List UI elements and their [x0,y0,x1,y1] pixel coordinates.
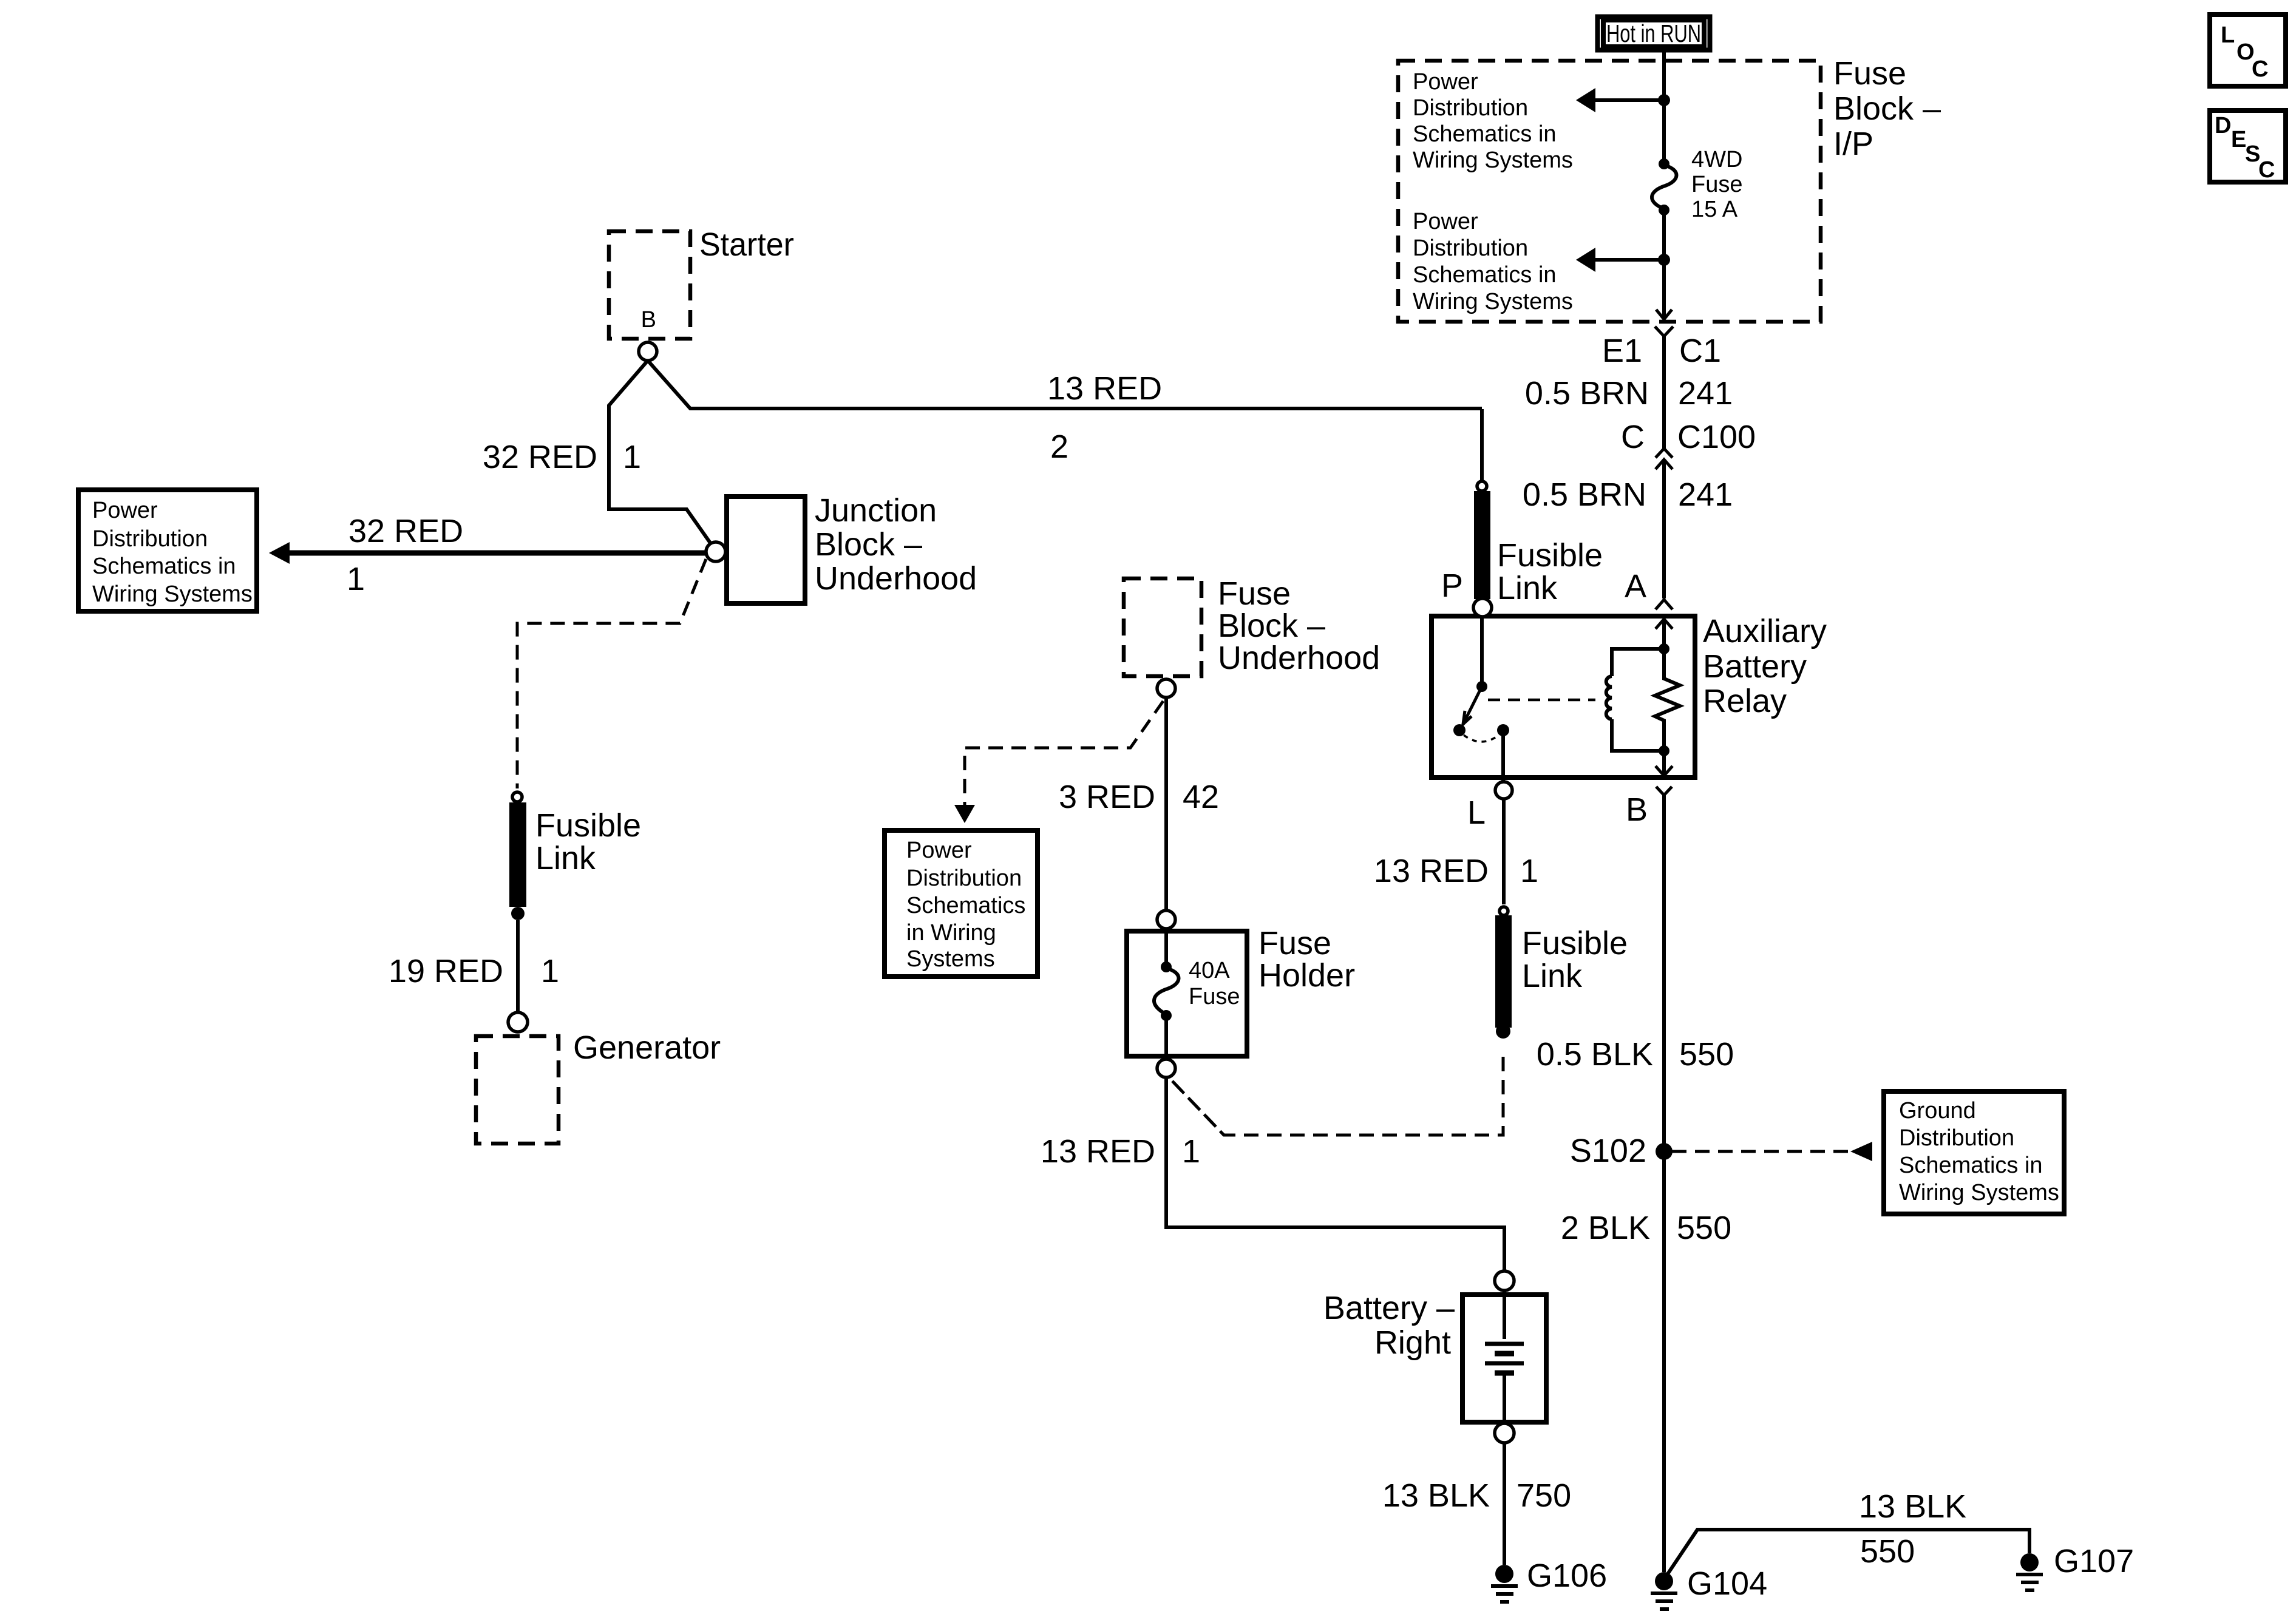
svg-text:G106: G106 [1527,1558,1607,1594]
svg-text:19 RED: 19 RED [389,953,503,989]
svg-text:L: L [1467,795,1486,831]
svg-text:241: 241 [1678,476,1733,513]
svg-text:32 RED: 32 RED [348,513,463,549]
svg-text:Distribution: Distribution [1413,95,1528,121]
svg-text:Distribution: Distribution [1413,236,1528,261]
svg-text:2 BLK: 2 BLK [1561,1210,1650,1246]
svg-text:13 BLK: 13 BLK [1859,1488,1966,1525]
svg-text:Block –: Block – [1218,608,1325,644]
svg-text:1: 1 [541,953,559,989]
svg-text:Schematics in: Schematics in [92,554,236,579]
svg-text:Power: Power [1413,69,1478,95]
svg-text:Wiring Systems: Wiring Systems [1413,289,1573,314]
svg-text:3 RED: 3 RED [1059,779,1155,815]
svg-text:G104: G104 [1687,1565,1767,1602]
svg-text:32 RED: 32 RED [483,439,597,475]
svg-text:Power: Power [906,838,972,863]
svg-text:in Wiring: in Wiring [906,920,996,946]
svg-text:Fuse: Fuse [1691,172,1742,197]
svg-text:750: 750 [1517,1477,1571,1514]
svg-text:Distribution: Distribution [1899,1125,2014,1151]
svg-text:D: D [2215,113,2231,138]
svg-text:40A: 40A [1189,958,1230,983]
svg-text:Fuse: Fuse [1189,984,1240,1009]
svg-text:E: E [2231,127,2246,152]
svg-text:1: 1 [347,561,365,597]
svg-text:C: C [2258,157,2275,183]
svg-text:15 A: 15 A [1691,197,1738,222]
svg-text:550: 550 [1677,1210,1731,1246]
svg-text:0.5 BLK: 0.5 BLK [1537,1036,1653,1073]
svg-text:Wiring Systems: Wiring Systems [1413,147,1573,173]
svg-text:Power: Power [1413,209,1478,234]
svg-text:Fuse: Fuse [1833,55,1906,92]
svg-text:Schematics: Schematics [906,893,1025,918]
svg-text:Battery –: Battery – [1323,1290,1455,1326]
svg-text:13 BLK: 13 BLK [1382,1477,1490,1514]
svg-text:1: 1 [1520,853,1538,889]
svg-text:Holder: Holder [1258,957,1355,994]
svg-text:Systems: Systems [906,946,995,972]
svg-text:B: B [1626,792,1648,828]
svg-text:Fuse: Fuse [1258,925,1331,961]
svg-text:Hot in RUN: Hot in RUN [1606,19,1701,47]
svg-text:42: 42 [1183,779,1219,815]
svg-text:Distribution: Distribution [92,526,208,552]
svg-text:Fuse: Fuse [1218,575,1291,612]
svg-text:I/P: I/P [1833,126,1873,162]
svg-text:Battery: Battery [1703,648,1807,685]
svg-text:E1: E1 [1602,333,1642,369]
svg-text:C: C [2252,56,2268,82]
svg-text:C: C [1621,419,1645,455]
svg-text:Underhood: Underhood [1218,640,1380,676]
svg-text:0.5 BRN: 0.5 BRN [1523,476,1646,513]
svg-text:Junction: Junction [815,492,937,529]
svg-text:1: 1 [1182,1133,1200,1170]
svg-text:13 RED: 13 RED [1374,853,1489,889]
svg-text:Wiring Systems: Wiring Systems [92,581,253,607]
svg-text:Fusible: Fusible [1497,537,1603,574]
svg-text:Block –: Block – [1833,90,1941,127]
svg-text:13 RED: 13 RED [1041,1133,1155,1170]
svg-text:L: L [2221,22,2235,48]
svg-text:Auxiliary: Auxiliary [1703,613,1827,649]
svg-text:C1: C1 [1679,333,1721,369]
svg-text:0.5 BRN: 0.5 BRN [1525,375,1649,412]
svg-text:S102: S102 [1570,1133,1646,1169]
svg-text:Right: Right [1374,1324,1451,1361]
svg-text:Ground: Ground [1899,1098,1976,1124]
svg-text:B: B [641,307,656,333]
svg-text:Power: Power [92,498,158,523]
svg-text:Link: Link [1497,570,1558,606]
svg-text:Schematics in: Schematics in [1413,121,1557,147]
svg-text:Relay: Relay [1703,683,1787,719]
svg-text:C100: C100 [1677,419,1756,455]
svg-text:P: P [1441,568,1463,604]
svg-text:Block –: Block – [815,526,922,563]
svg-text:550: 550 [1860,1533,1915,1570]
svg-text:Schematics in: Schematics in [1899,1153,2043,1178]
svg-text:Fusible: Fusible [535,807,641,844]
svg-text:A: A [1625,568,1646,605]
svg-text:Wiring Systems: Wiring Systems [1899,1180,2059,1205]
svg-text:2: 2 [1050,429,1068,465]
svg-text:Fusible: Fusible [1522,925,1628,961]
svg-text:4WD: 4WD [1691,147,1742,172]
svg-text:Distribution: Distribution [906,866,1022,891]
svg-text:241: 241 [1678,375,1733,412]
svg-text:Underhood: Underhood [815,560,977,597]
svg-text:Schematics in: Schematics in [1413,262,1557,288]
svg-text:1: 1 [623,439,641,475]
svg-text:G107: G107 [2054,1543,2134,1579]
svg-text:Link: Link [535,840,596,876]
svg-text:13 RED: 13 RED [1047,370,1162,407]
svg-text:550: 550 [1679,1036,1734,1073]
svg-text:Link: Link [1522,958,1583,994]
svg-text:Generator: Generator [573,1029,721,1066]
svg-text:Starter: Starter [699,226,794,263]
